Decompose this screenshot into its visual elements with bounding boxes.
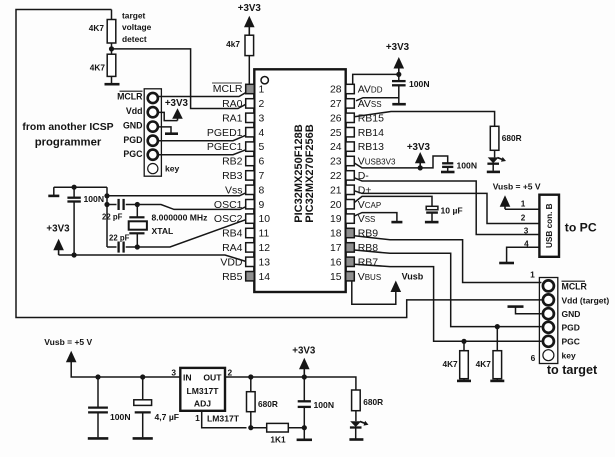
connector J1 pin 4 circle — [148, 136, 158, 146]
resistor R8 1K1 — [267, 423, 289, 432]
svg-text:MCLR: MCLR — [562, 281, 588, 291]
svg-text:RB4: RB4 — [222, 228, 243, 240]
svg-text:Vusb: Vusb — [402, 272, 424, 282]
svg-text:4,7 µF: 4,7 µF — [155, 412, 180, 422]
svg-text:PGC: PGC — [123, 149, 143, 159]
connector J3 pin 2 circle — [543, 294, 554, 305]
svg-text:25: 25 — [330, 128, 342, 139]
ground LED1 — [487, 171, 500, 174]
junction OSC1 cap — [104, 202, 109, 207]
capacitor C4 100N stems — [398, 74, 400, 103]
U1 pin 3 square — [246, 113, 255, 122]
stem — [177, 118, 179, 121]
wire rail to C2 — [107, 204, 117, 206]
svg-text:GND: GND — [562, 309, 581, 319]
wire LED2 gnd — [355, 428, 357, 439]
U1 pin 11 square — [246, 228, 255, 237]
svg-text:MCLR: MCLR — [117, 92, 143, 102]
svg-text:4K7: 4K7 — [476, 359, 492, 369]
power +3V3 arrow (ICSP Vdd) — [172, 108, 183, 119]
junction VUSB3V3 — [418, 165, 423, 170]
junction ADJ node — [248, 425, 253, 430]
U1 pin 25 square — [346, 128, 355, 137]
wire ICSP PGD to PGED1 — [158, 135, 246, 140]
label J1 MCLR — [117, 91, 143, 101]
ground J3 GND — [508, 307, 542, 314]
wire divider tap to RA0 — [112, 49, 246, 109]
wire AVSS pin27 — [356, 98, 399, 101]
U1 pin 28 square — [346, 84, 355, 93]
svg-text:1: 1 — [195, 413, 200, 423]
U1 pin 27 square — [346, 99, 355, 108]
svg-text:18: 18 — [330, 229, 342, 240]
svg-text:1: 1 — [521, 199, 526, 208]
wire LED1 to gnd — [492, 164, 494, 171]
svg-text:AVDD: AVDD — [358, 84, 383, 96]
svg-text:VBUS: VBUS — [358, 271, 381, 283]
svg-text:LM317T: LM317T — [207, 414, 240, 424]
capacitor C5 100N plates — [442, 163, 453, 167]
junction R7 top — [248, 374, 253, 379]
svg-text:OUT: OUT — [203, 373, 222, 383]
svg-text:16: 16 — [330, 257, 342, 268]
U1 pin 18 square — [346, 228, 355, 237]
svg-text:1: 1 — [259, 85, 265, 96]
junction divider tap — [109, 46, 114, 51]
U1 pin 22 square — [346, 171, 355, 180]
svg-text:to target: to target — [547, 363, 598, 377]
svg-text:Vss: Vss — [225, 184, 243, 196]
stem + rail — [71, 362, 180, 377]
capacitor C8 4.7uF — [134, 377, 152, 437]
svg-text:4K7: 4K7 — [442, 359, 458, 369]
svg-text:680R: 680R — [258, 399, 278, 409]
U1 pin 5 square — [246, 142, 255, 151]
svg-text:Vusb = +5 V: Vusb = +5 V — [493, 182, 541, 192]
svg-text:AVSS: AVSS — [358, 98, 382, 110]
svg-text:PGC: PGC — [562, 337, 580, 347]
U1 pin label MCLR — [212, 83, 243, 95]
svg-text:ADJ: ADJ — [194, 399, 211, 409]
svg-text:PIC32MX250F128B: PIC32MX250F128B — [293, 124, 305, 222]
svg-text:20: 20 — [330, 200, 342, 211]
svg-text:PGD: PGD — [562, 323, 580, 333]
capacitor C7 100N stems — [97, 377, 99, 437]
svg-text:1K1: 1K1 — [270, 435, 286, 445]
svg-text:4K7: 4K7 — [90, 63, 106, 73]
capacitor C1 100N stems — [73, 187, 75, 255]
junction C1 bottom — [72, 252, 77, 257]
svg-text:22 pF: 22 pF — [109, 233, 130, 242]
svg-text:key: key — [562, 351, 576, 361]
connector J1 ICSP box — [144, 89, 161, 176]
wire D- pin22 to USB pin3 — [354, 178, 539, 235]
wire D+ pin21 to USB pin2 — [354, 191, 539, 224]
svg-text:IN: IN — [183, 373, 192, 383]
svg-text:RA0: RA0 — [222, 98, 243, 110]
resistor R3 4k7 MCLR pullup — [245, 35, 254, 55]
junction PGC pulldown — [461, 339, 466, 344]
power +3V3 arrow (VUSB3V3) — [415, 152, 426, 163]
R7 stem — [250, 377, 252, 392]
wire R3 to pin1 — [248, 56, 250, 85]
svg-text:28: 28 — [330, 85, 342, 96]
svg-text:RB13: RB13 — [358, 141, 384, 153]
svg-text:USB con. B: USB con. B — [545, 203, 554, 248]
wire R2 to ground — [111, 76, 113, 83]
wire ADJ to divider — [251, 427, 304, 429]
wire J2 pin4 gnd — [507, 247, 540, 262]
svg-text:RB5: RB5 — [222, 271, 243, 283]
svg-text:from another ICSP: from another ICSP — [22, 122, 113, 133]
junction OSC2 node — [135, 244, 140, 249]
svg-text:PIC32MX270F256B: PIC32MX270F256B — [304, 124, 316, 222]
ground C7 — [88, 437, 109, 440]
junction C1 top — [72, 185, 77, 190]
stem — [419, 163, 421, 168]
resistor R4 680R — [490, 126, 499, 150]
svg-text:680R: 680R — [363, 397, 383, 407]
svg-text:+3V3: +3V3 — [238, 3, 262, 14]
svg-text:3: 3 — [524, 226, 529, 235]
ground C8 — [133, 437, 153, 440]
R6 stem — [463, 341, 465, 350]
U1 pin 16 square — [346, 257, 355, 266]
wire U2 OUT rail to R9 — [225, 377, 356, 390]
wire C2 to xtal node — [126, 204, 138, 206]
svg-text:6: 6 — [259, 157, 265, 168]
svg-text:VSS: VSS — [358, 213, 376, 225]
connector J3 pin 4 circle — [543, 322, 554, 333]
op-amp?? no: IC U1 PIC32MX body — [254, 69, 345, 292]
wire RB8 to target PGD — [354, 250, 541, 327]
U1 pin 1 square — [246, 84, 255, 93]
svg-text:+3V3: +3V3 — [165, 98, 189, 109]
ground crystal-left — [48, 187, 59, 196]
svg-text:RB3: RB3 — [222, 170, 243, 182]
LED D2 — [350, 421, 369, 428]
power +3V3 arrow (LM317 out) — [299, 358, 310, 370]
svg-text:detect: detect — [122, 34, 147, 44]
wire AVDD pin28 to +3V3 — [353, 74, 399, 84]
U1 pin 10 square — [246, 214, 255, 223]
svg-text:1: 1 — [530, 270, 535, 280]
power Vusb arrow (LM317 in) — [66, 351, 77, 363]
connector J3 pin 3 circle — [543, 308, 554, 319]
wire RB15 to R4 — [354, 112, 494, 127]
wire +3V3 to VDD pin13 — [59, 255, 246, 261]
svg-text:Vdd: Vdd — [126, 106, 143, 116]
svg-text:+3V3: +3V3 — [386, 42, 410, 53]
svg-text:17: 17 — [330, 243, 342, 254]
wire VBUS pin15 Vusb — [352, 281, 396, 304]
svg-text:4k7: 4k7 — [226, 39, 240, 49]
wire ICSP PGC to PGEC1 — [158, 150, 246, 155]
svg-text:15: 15 — [330, 272, 342, 283]
capacitor C9 100N stems — [303, 377, 305, 439]
svg-text:PGED1: PGED1 — [207, 127, 243, 139]
junction C7 — [95, 374, 100, 379]
connector J1 pin 5 circle — [148, 150, 158, 160]
svg-text:+3V3: +3V3 — [46, 224, 70, 235]
svg-text:VCAP: VCAP — [358, 199, 381, 211]
svg-text:6: 6 — [531, 353, 536, 363]
capacitor C9 100N plates — [298, 401, 311, 407]
svg-text:7: 7 — [259, 171, 265, 182]
svg-text:to PC: to PC — [565, 221, 597, 235]
capacitor C6 10uF — [426, 206, 438, 221]
wire C3 to xtal bottom — [126, 246, 138, 248]
svg-text:10 µF: 10 µF — [441, 206, 463, 216]
regulator U2 LM317T box — [180, 368, 225, 411]
wire ICSP MCLR to pin1 — [158, 93, 246, 97]
svg-text:9: 9 — [259, 200, 265, 211]
connector J1 pin 2 circle — [148, 107, 158, 117]
ground VSS pin19 — [391, 221, 402, 224]
junction Vss wire — [104, 193, 109, 198]
connector J1 key circle — [148, 164, 158, 174]
svg-text:22 pF: 22 pF — [102, 213, 123, 222]
svg-text:8: 8 — [259, 185, 265, 196]
svg-text:Vdd (target): Vdd (target) — [562, 295, 610, 305]
wire RB9 to target MCLR — [354, 236, 541, 283]
svg-text:+3V3: +3V3 — [407, 142, 431, 153]
wire J2 pin1 Vusb — [505, 208, 539, 210]
svg-text:target: target — [122, 10, 145, 20]
U1 pin 26 square — [346, 113, 355, 122]
capacitor C7 100N plates — [88, 408, 108, 413]
svg-text:OSC2: OSC2 — [214, 213, 243, 225]
crystal X1 — [129, 205, 147, 248]
svg-text:VUSB3V3: VUSB3V3 — [358, 156, 396, 168]
junction +3V3 out — [302, 374, 307, 379]
ground C6 — [425, 221, 439, 224]
ground AVSS bar — [392, 103, 406, 106]
R5 stem — [496, 327, 498, 351]
U1 pin 23 square — [346, 156, 355, 165]
wire arrow to R3 — [248, 27, 250, 35]
wire RB7 to target PGC — [354, 264, 541, 341]
svg-text:RA4: RA4 — [222, 242, 243, 254]
U1 pin 14 square — [246, 272, 255, 281]
svg-text:2: 2 — [228, 368, 233, 378]
junction R8-C9 — [302, 425, 307, 430]
capacitor C1 100N plates — [67, 198, 80, 202]
ground ICSP GND — [165, 132, 178, 135]
capacitor C2 22pF plates — [119, 199, 124, 210]
svg-text:4K7: 4K7 — [89, 23, 105, 33]
resistor R6 4K7 — [460, 351, 469, 379]
U1 pin 13 square — [246, 257, 255, 266]
wire VSS pin19 — [354, 213, 397, 221]
text from another ICSP programmer — [22, 122, 113, 148]
svg-text:voltage: voltage — [122, 22, 152, 32]
svg-text:24: 24 — [330, 142, 342, 153]
svg-text:Vusb = +5 V: Vusb = +5 V — [44, 337, 92, 347]
capacitor C3 22pF plates — [119, 242, 124, 253]
junction C8 — [140, 374, 145, 379]
U1 pin 20 square — [346, 200, 355, 209]
svg-text:26: 26 — [330, 113, 342, 124]
svg-text:4: 4 — [524, 239, 529, 248]
svg-text:PGD: PGD — [123, 135, 142, 145]
svg-text:+3V3: +3V3 — [292, 346, 316, 357]
stem — [398, 68, 400, 74]
wire Vss to pin8 — [107, 193, 246, 196]
resistor R1 4K7 divider top — [107, 20, 116, 44]
wire R1 top stem — [111, 10, 113, 20]
svg-text:PGEC1: PGEC1 — [207, 141, 243, 153]
svg-text:5: 5 — [259, 142, 265, 153]
svg-text:23: 23 — [330, 157, 342, 168]
svg-text:RB7: RB7 — [358, 256, 379, 268]
connector J3 to-target box — [539, 278, 557, 364]
R6 gnd stem — [463, 379, 465, 381]
wire left gnd rail — [106, 187, 108, 247]
connector J2 USB B box — [539, 195, 559, 257]
resistor R2 4K7 divider bottom — [107, 54, 116, 76]
connector J1 pin 3 circle — [148, 122, 158, 132]
LED D1 — [487, 157, 506, 164]
svg-text:programmer: programmer — [35, 136, 102, 148]
ground C9 — [297, 438, 312, 441]
ground LED2 — [349, 438, 363, 441]
svg-text:key: key — [165, 164, 180, 174]
resistor R7 680R — [247, 392, 256, 412]
U1 pin 12 square — [246, 243, 255, 252]
wire OSC1 node to pin9 — [137, 205, 245, 210]
svg-text:RB14: RB14 — [358, 127, 384, 139]
svg-text:100N: 100N — [314, 400, 335, 410]
svg-text:RA1: RA1 — [222, 112, 243, 124]
U1 pin 17 square — [346, 243, 355, 252]
wire Vdd(target) sense loop — [16, 10, 542, 318]
wire VUSB3V3 to C5 — [354, 156, 447, 168]
ground C5 — [441, 171, 455, 174]
wire VCAP pin20 to C6 — [354, 196, 432, 206]
svg-text:3: 3 — [171, 368, 176, 378]
wire ICSP GND — [158, 127, 171, 133]
svg-text:3: 3 — [259, 113, 265, 124]
U1 pin 2 square — [246, 99, 255, 108]
junction OSC1 node — [135, 202, 140, 207]
C5 stem — [447, 167, 449, 171]
U1 pin 24 square — [346, 142, 355, 151]
svg-text:D+: D+ — [358, 184, 372, 196]
ground J2 pin4 — [499, 262, 514, 265]
wire Vss rail top — [54, 186, 107, 188]
label J3 MCLR — [562, 281, 588, 291]
U1 pin 6 square — [246, 156, 255, 165]
junction AVDD node — [396, 72, 401, 77]
svg-text:8.000000 MHz: 8.000000 MHz — [152, 213, 208, 223]
svg-text:MCLR: MCLR — [213, 83, 243, 95]
wire R4 to LED1 — [494, 150, 496, 157]
wire OSC2 node to pin10 — [137, 220, 245, 247]
connector J1 pin 1 circle — [148, 93, 158, 103]
R7 stem2 — [250, 412, 252, 428]
U1 pin 8 square — [246, 185, 255, 194]
svg-text:100N: 100N — [409, 79, 430, 89]
U1 pin 15 square — [346, 272, 355, 281]
U1 pin 21 square — [346, 185, 355, 194]
resistor R5 4K7 — [493, 351, 502, 379]
svg-text:100N: 100N — [457, 161, 478, 171]
svg-text:2: 2 — [259, 99, 265, 110]
svg-text:4: 4 — [259, 128, 265, 139]
svg-text:GND: GND — [123, 121, 143, 131]
power +3V3 arrow (AVDD) — [394, 57, 405, 69]
svg-text:100N: 100N — [110, 412, 131, 422]
text target voltage detect — [122, 10, 152, 44]
svg-text:680R: 680R — [502, 133, 522, 143]
svg-text:19: 19 — [330, 214, 342, 225]
junction PGD pulldown — [495, 324, 500, 329]
svg-text:LM317T: LM317T — [187, 386, 220, 396]
U1 pin 9 square — [246, 200, 255, 209]
ground divider — [105, 83, 120, 86]
svg-text:22: 22 — [330, 171, 342, 182]
stem — [58, 250, 60, 255]
svg-text:10: 10 — [259, 214, 271, 225]
wire R1-R2 — [111, 43, 113, 54]
connector J3 key circle — [543, 350, 554, 361]
svg-text:27: 27 — [330, 99, 342, 110]
U1 pin 19 square — [346, 214, 355, 223]
stem — [303, 369, 305, 377]
connector J3 pin 5 circle — [543, 336, 554, 347]
svg-text:XTAL: XTAL — [152, 226, 174, 236]
U1 pin 7 square — [246, 171, 255, 180]
svg-text:13: 13 — [259, 257, 271, 268]
wire U2 ADJ — [202, 411, 247, 428]
U1 pin 4 square — [246, 128, 255, 137]
wire ICSP Vdd — [158, 112, 178, 120]
svg-text:14: 14 — [259, 272, 271, 283]
R5 gnd stem — [496, 379, 498, 381]
power +3V3 arrow (VDD) — [53, 239, 64, 251]
ground R6 — [457, 380, 471, 383]
power Vusb arrow (VBUS) — [391, 281, 402, 293]
wire rail to C3 — [107, 246, 117, 248]
svg-text:RB2: RB2 — [222, 156, 243, 168]
svg-text:100N: 100N — [84, 194, 105, 204]
U1 pin1 index circle — [261, 77, 268, 84]
resistor R9 680R — [352, 390, 361, 411]
power +3V3 arrow (MCLR pullup) — [244, 16, 255, 27]
svg-text:2: 2 — [521, 214, 526, 223]
capacitor C4 100N plates — [392, 81, 406, 85]
stem — [504, 206, 506, 209]
R9 stem — [355, 411, 357, 422]
ground R5 — [490, 380, 504, 383]
svg-text:12: 12 — [259, 243, 271, 254]
connector J3 pin 1 circle — [543, 280, 554, 291]
svg-text:VDD: VDD — [220, 256, 243, 268]
power Vusb=+5V arrow — [500, 195, 511, 207]
svg-text:21: 21 — [330, 185, 342, 196]
svg-text:11: 11 — [259, 229, 270, 240]
